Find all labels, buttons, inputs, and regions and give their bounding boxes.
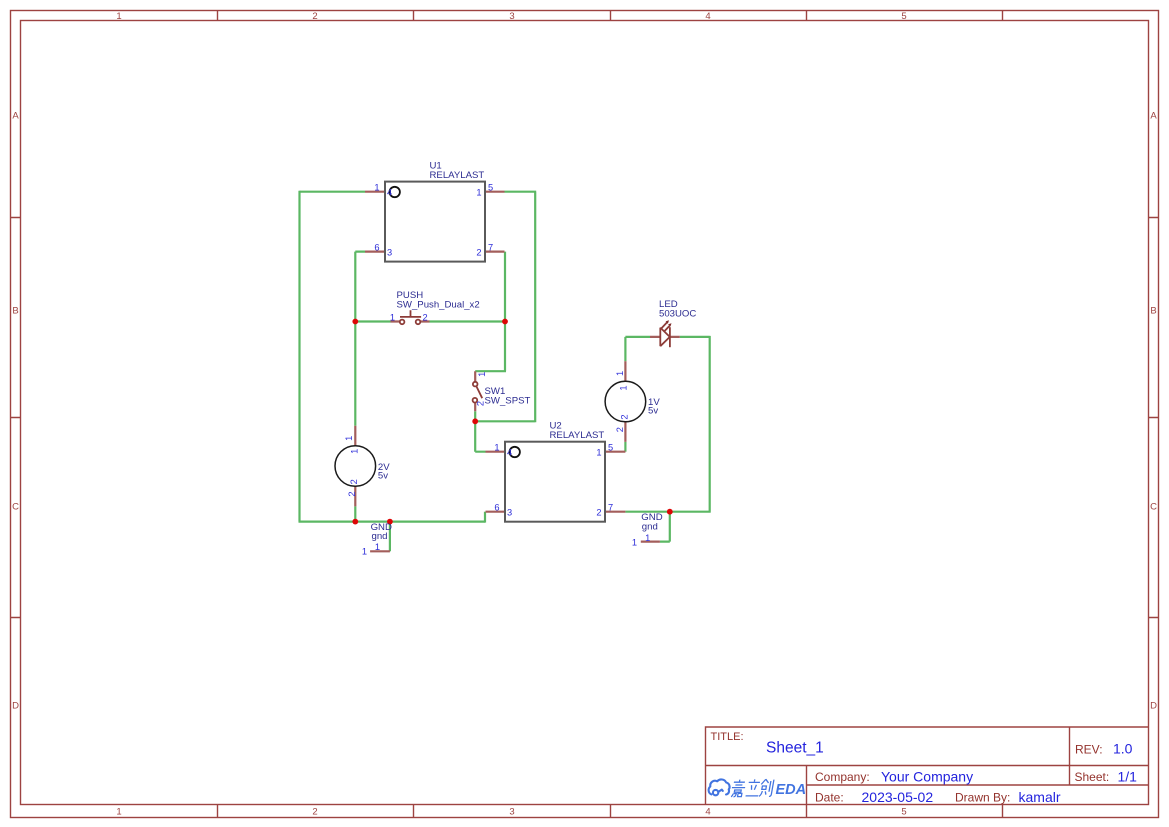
svg-text:6: 6 [374, 242, 379, 252]
svg-text:A: A [1150, 111, 1157, 122]
svg-text:Your Company: Your Company [881, 769, 973, 785]
svg-text:A: A [12, 111, 19, 122]
svg-text:503UOC: 503UOC [659, 308, 696, 319]
svg-text:1: 1 [344, 436, 354, 441]
svg-text:C: C [1150, 502, 1157, 513]
svg-text:1.0: 1.0 [1113, 741, 1133, 757]
svg-text:3: 3 [509, 11, 514, 22]
svg-text:Sheet_1: Sheet_1 [766, 740, 824, 757]
svg-text:B: B [1150, 306, 1156, 317]
svg-text:1: 1 [477, 372, 487, 377]
svg-text:Company:: Company: [815, 770, 870, 784]
svg-text:Date:: Date: [815, 791, 844, 805]
svg-text:2: 2 [615, 427, 625, 432]
svg-text:5: 5 [901, 11, 906, 22]
svg-text:2023-05-02: 2023-05-02 [862, 789, 934, 805]
svg-text:1/1: 1/1 [1118, 769, 1138, 785]
svg-text:5v: 5v [378, 470, 388, 481]
svg-text:kamalr: kamalr [1019, 789, 1061, 805]
svg-text:1: 1 [645, 533, 650, 543]
svg-text:gnd: gnd [642, 522, 658, 533]
svg-text:3: 3 [387, 247, 392, 257]
svg-text:7: 7 [488, 242, 493, 252]
svg-text:1: 1 [494, 443, 499, 453]
svg-text:D: D [1150, 701, 1157, 712]
svg-text:2: 2 [596, 507, 601, 517]
svg-text:2: 2 [476, 247, 481, 257]
svg-text:Sheet:: Sheet: [1075, 770, 1110, 784]
svg-text:1: 1 [116, 11, 121, 22]
svg-text:1: 1 [362, 547, 367, 557]
svg-text:4: 4 [705, 807, 710, 818]
svg-text:RELAYLAST: RELAYLAST [430, 170, 485, 181]
svg-text:7: 7 [608, 502, 613, 512]
svg-text:2: 2 [312, 11, 317, 22]
svg-text:D: D [12, 701, 19, 712]
svg-text:4: 4 [387, 187, 392, 197]
svg-text:gnd: gnd [372, 531, 388, 542]
svg-text:1: 1 [116, 807, 121, 818]
svg-text:3: 3 [509, 807, 514, 818]
svg-text:2: 2 [312, 807, 317, 818]
svg-text:3: 3 [507, 507, 512, 517]
svg-text:1: 1 [375, 542, 380, 552]
svg-text:5: 5 [488, 183, 493, 193]
svg-text:B: B [12, 306, 18, 317]
svg-text:C: C [12, 502, 19, 513]
svg-text:5: 5 [901, 807, 906, 818]
svg-text:5: 5 [608, 443, 613, 453]
svg-text:5v: 5v [648, 405, 658, 416]
svg-text:1: 1 [390, 312, 395, 322]
svg-text:2: 2 [349, 479, 359, 484]
svg-text:SW_SPST: SW_SPST [485, 396, 531, 407]
svg-text:2: 2 [347, 491, 357, 496]
svg-text:2: 2 [620, 414, 630, 419]
svg-text:6: 6 [494, 502, 499, 512]
svg-text:Drawn By:: Drawn By: [955, 791, 1010, 805]
svg-text:1: 1 [374, 183, 379, 193]
svg-text:4: 4 [507, 447, 512, 457]
svg-text:EDA: EDA [776, 782, 807, 798]
svg-text:TITLE:: TITLE: [711, 731, 744, 743]
svg-text:1: 1 [619, 385, 629, 390]
svg-text:RELAYLAST: RELAYLAST [550, 430, 605, 441]
svg-text:1: 1 [632, 537, 637, 547]
svg-text:2: 2 [423, 312, 428, 322]
svg-text:2: 2 [476, 401, 486, 406]
svg-text:1: 1 [596, 447, 601, 457]
svg-text:4: 4 [705, 11, 710, 22]
svg-text:SW_Push_Dual_x2: SW_Push_Dual_x2 [397, 299, 480, 310]
svg-text:1: 1 [615, 371, 625, 376]
svg-text:1: 1 [350, 449, 360, 454]
svg-text:REV:: REV: [1075, 743, 1103, 757]
svg-text:1: 1 [476, 187, 481, 197]
